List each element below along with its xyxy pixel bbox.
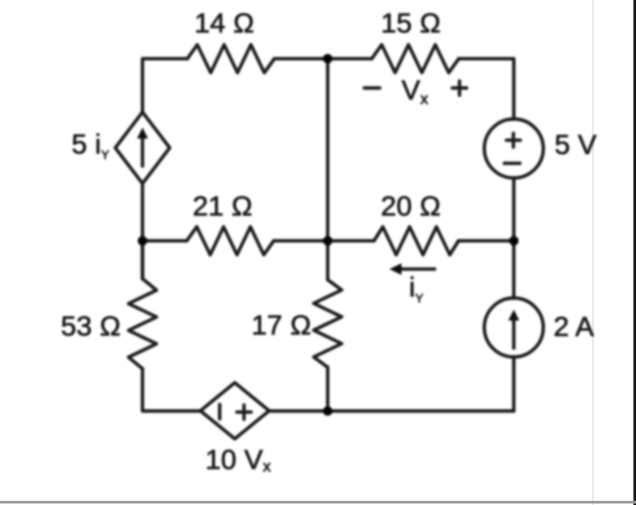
current source I1 2A circle	[484, 298, 543, 357]
node A top-middle junction dot	[323, 54, 333, 64]
arrow inside 5iy source	[137, 128, 148, 168]
svg-text:15 Ω: 15 Ω	[381, 8, 441, 39]
wire top-right segment	[459, 59, 514, 119]
plus sign inside 5V source	[507, 133, 521, 147]
wire top-left segment	[143, 59, 188, 112]
wire top-middle segment	[274, 57, 371, 60]
svg-text:14 Ω: 14 Ω	[194, 8, 254, 39]
right page border	[633, 0, 636, 505]
svg-text:21 Ω: 21 Ω	[193, 191, 253, 222]
wire mid below node	[326, 241, 329, 280]
node D middle-right junction dot	[509, 236, 519, 246]
wire middle row centre segment	[274, 239, 374, 242]
bottom separator line	[0, 501, 636, 504]
resistor R 20ohm zigzag	[374, 227, 458, 255]
resistor R 21ohm zigzag	[187, 227, 274, 255]
node C middle-centre junction dot	[323, 236, 333, 246]
wire middle row right segment	[459, 239, 514, 242]
svg-text:20 Ω: 20 Ω	[381, 191, 441, 222]
faint column divider line	[592, 0, 594, 505]
wire left below mid node	[141, 241, 144, 279]
svg-text:10 Vx: 10 Vx	[205, 444, 271, 476]
wire mid bottom segment	[326, 367, 329, 411]
resistor R 14ohm zigzag	[187, 45, 274, 73]
wire right bottom segment	[512, 357, 515, 411]
voltage source U2 10Vx diamond	[200, 383, 269, 439]
resistor R 15ohm zigzag	[372, 45, 459, 73]
node B middle-left junction dot	[138, 236, 148, 246]
voltage source V1 5V circle	[484, 119, 543, 178]
wire bottom row right of diamond	[269, 409, 514, 412]
plus sign inside 10Vx source	[237, 405, 251, 419]
minus sign inside 5V source	[504, 162, 520, 165]
current arrow iy	[389, 263, 436, 275]
resistor R 17ohm zigzag vertical	[314, 280, 342, 367]
arrow inside 2A source	[508, 310, 519, 350]
resistor R 53ohm zigzag vertical	[129, 279, 157, 369]
label Vx polarity plus	[452, 81, 466, 95]
svg-text:5 V: 5 V	[555, 129, 597, 160]
wire left bottom segment	[143, 369, 201, 411]
minus bar inside 10Vx source	[218, 405, 221, 419]
wire left mid segment	[141, 184, 144, 279]
label Vx polarity minus	[364, 86, 379, 89]
wire right mid segment	[512, 178, 515, 298]
node E bottom-middle junction dot	[323, 406, 333, 416]
wire middle vertical top	[326, 59, 329, 241]
svg-text:53 Ω: 53 Ω	[61, 310, 121, 341]
current source U1 5iy diamond	[115, 112, 169, 183]
wire middle-left row segment	[143, 239, 187, 242]
svg-text:2 A: 2 A	[554, 311, 595, 342]
svg-text:17 Ω: 17 Ω	[251, 310, 311, 341]
